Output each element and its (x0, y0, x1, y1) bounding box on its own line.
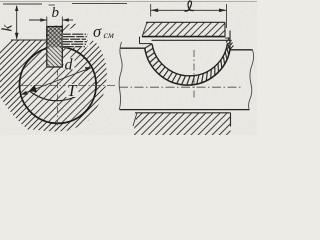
inner arc (key bottom) (152, 43, 228, 76)
left break line (119, 42, 122, 110)
key top line (152, 39, 230, 41)
shaft interior hatching (19, 46, 97, 124)
horizontal centerline (20, 85, 118, 87)
d diameter line (21, 68, 92, 95)
label T (66, 84, 79, 97)
groove corner hatch strokes (226, 38, 234, 51)
shaft top left (121, 47, 146, 49)
top reference line right (49, 4, 56, 6)
k dimension (3, 3, 42, 5)
right groove edge vertical (229, 31, 231, 50)
vertical centerline (57, 57, 59, 131)
small gap rectangle left of key (139, 37, 141, 44)
crescent rungs hatch (145, 43, 230, 85)
key vertical centerline (193, 50, 195, 99)
key (hatched, mesh in upper part) (47, 27, 63, 68)
sigma_cm label (88, 24, 116, 40)
right break line (249, 50, 254, 110)
hub hatched region (0, 24, 107, 132)
hub top edge line (11, 39, 46, 41)
outer arc (groove) (145, 48, 230, 85)
hub band bottom (133, 113, 231, 135)
shaft bottom line (120, 109, 250, 111)
label d (64, 58, 75, 70)
faint page-edge line (0, 1, 257, 3)
b dimension (46, 17, 48, 27)
shaft top right (230, 49, 253, 51)
shaft circle (20, 47, 97, 124)
l dimension (150, 4, 152, 17)
hub band top (142, 22, 225, 36)
horizontal centerline (119, 86, 242, 88)
torque arc T (30, 91, 79, 101)
keyway slot in shaft (46, 44, 63, 68)
bearing stress zone (brick lines) (63, 33, 88, 48)
